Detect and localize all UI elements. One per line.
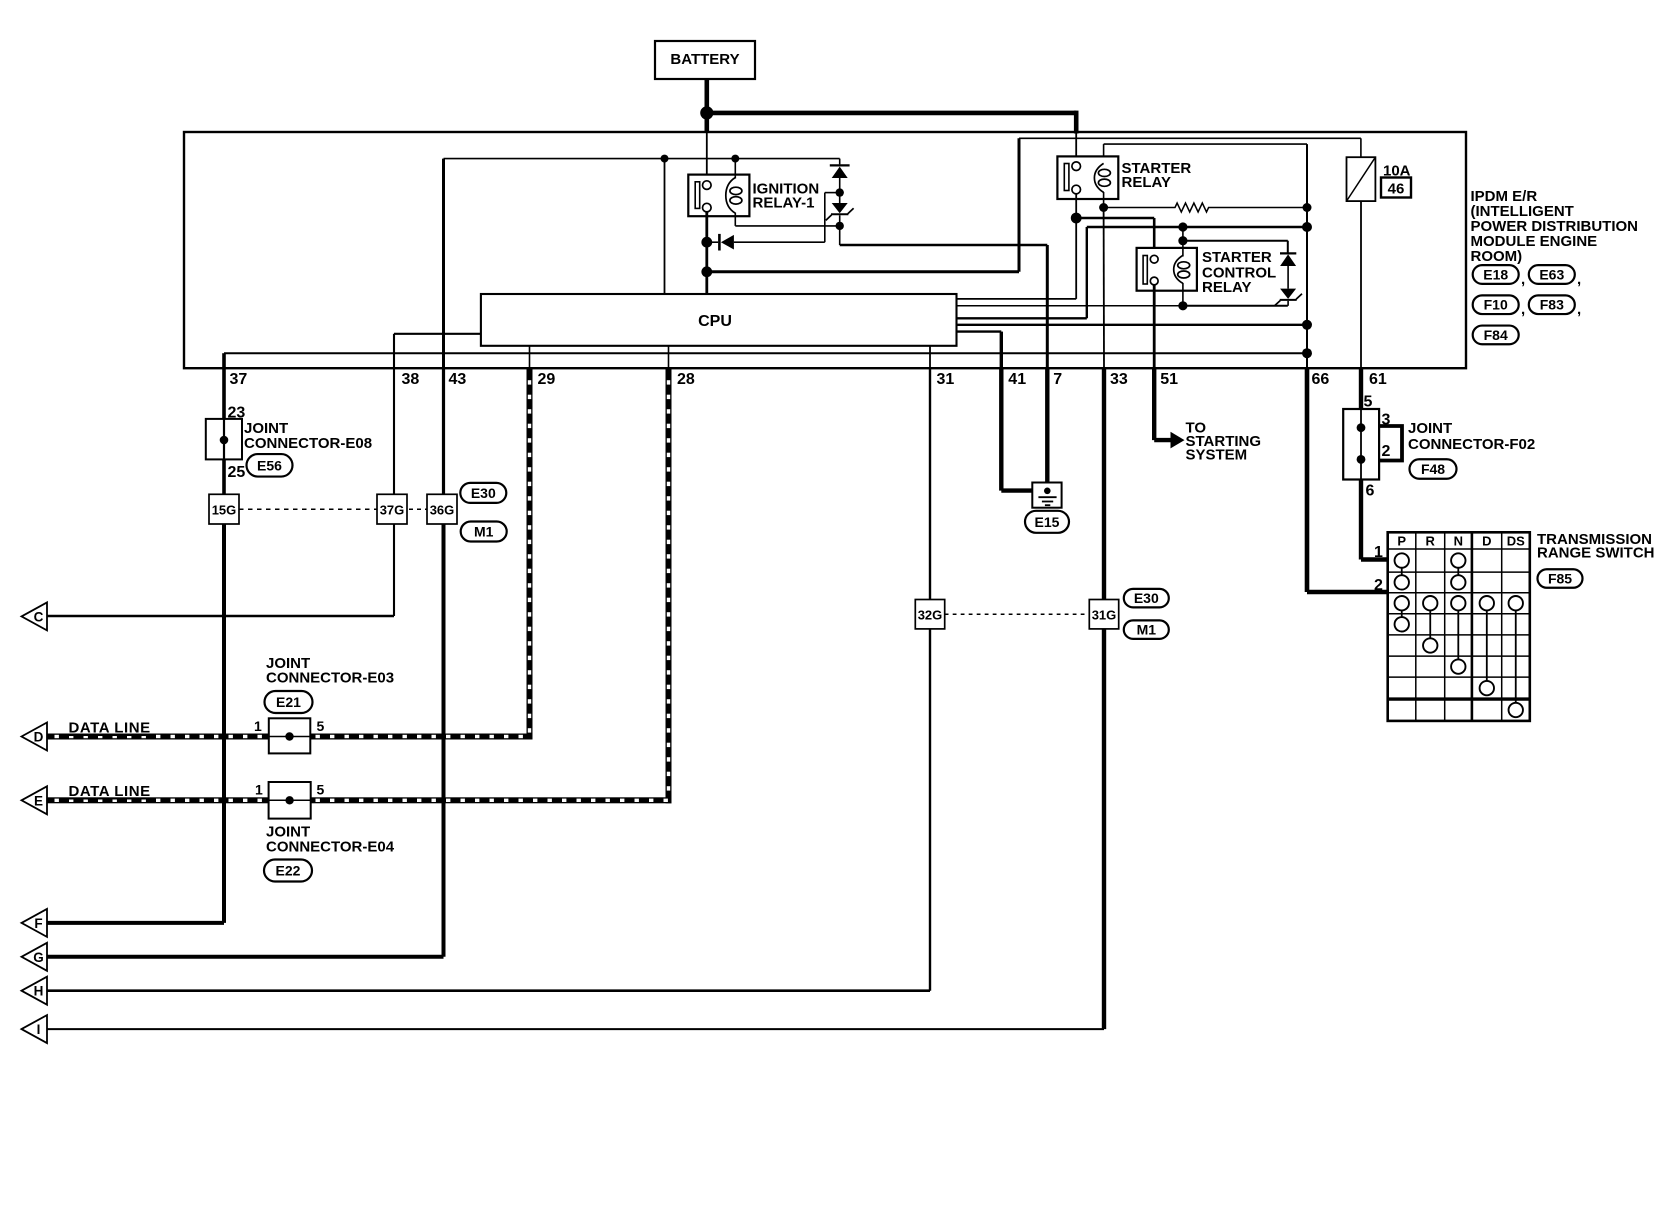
svg-text:15G: 15G [212,503,237,518]
wire long bus pin37 to pin66 net [224,352,1307,354]
svg-text:I: I [37,1022,41,1037]
dashed mate line 15G-37G [239,508,379,510]
wire D2 to ignition output [707,241,718,243]
connector oval E56 [247,454,293,477]
wire battery to junction [704,79,709,133]
wire Z1 to bottom node [839,215,841,226]
connector ovals F10 F83 [1473,295,1519,314]
resistor R1 [1104,203,1307,212]
relay box IGNITION RELAY-1 [688,175,749,217]
IPDM E/R enclosure box [184,132,1466,368]
wire ignition coil top stub [734,159,736,179]
ground symbol box E15 [1032,483,1061,508]
svg-text:38: 38 [402,371,420,388]
node resistor tap [1099,203,1108,212]
wire E08 to 15G [222,459,226,494]
wire F horizontal [45,921,224,925]
svg-text:F85: F85 [1548,571,1572,587]
wire pin37 stub [222,353,226,368]
wire pin43 feed line [444,158,840,160]
dashed mate line 37G-36G [409,508,429,510]
wire G horizontal [45,955,444,959]
wire fuse feed top [1019,137,1361,139]
wire pin31 riser [929,368,931,991]
wire SCR coil bottom [1182,283,1184,306]
svg-text:CONNECTOR-E08: CONNECTOR-E08 [244,435,372,452]
node battery junction [700,106,713,119]
wire CPU to pin31 stub [929,346,931,368]
starter relay coil loops [1098,169,1110,176]
svg-text:RANGE SWITCH: RANGE SWITCH [1537,545,1655,562]
node pin66 net coil feed junction [1302,222,1312,232]
wire CPU to pin66 net [957,324,1308,326]
wire Z2 to bottom edge [1287,301,1289,306]
svg-text:29: 29 [538,371,556,388]
zener Z2 bar with tails [1280,299,1297,301]
wire SCR contact to pin51 [1153,285,1156,368]
SCR contact terminal bottom [1150,277,1158,285]
node ignition output diode junction [701,237,712,248]
node pin66 net cpu junction [1302,320,1312,330]
svg-text:2: 2 [1374,577,1383,594]
wire SCR subcircuit bottom edge [1183,305,1288,307]
svg-text:ROOM): ROOM) [1471,248,1523,265]
svg-text:1: 1 [255,782,263,798]
svg-text:31G: 31G [1092,608,1117,623]
node ignition output fuse-branch junction [701,266,712,277]
wire CPU to pin29 stub [529,346,531,368]
connector oval F85 [1538,569,1583,588]
svg-text:DATA LINE: DATA LINE [69,720,151,737]
node ground entry [1044,488,1051,495]
wire pin38 riser to C corner [393,368,395,616]
wire SCR coil bottom to CPU [957,305,1183,307]
diode D1 body [832,167,848,178]
wire D1 to mid node [839,178,841,203]
svg-text:,: , [1521,301,1525,318]
svg-text:E22: E22 [276,863,301,879]
SCR contact bar [1143,256,1147,285]
svg-text:F84: F84 [1484,327,1508,343]
wire battery bus to starter relay branch [707,111,1076,116]
svg-text:RELAY: RELAY [1202,279,1251,296]
node ignition coil top junction [731,155,739,163]
wire pin43 riser inside IPDM [442,159,445,369]
svg-text:E30: E30 [1134,590,1159,606]
zener diode Z1 body [832,203,848,213]
node junction to CPU [661,155,669,163]
wire D3 to Z2 [1287,266,1289,289]
diode D2 cathode bar [718,234,721,251]
svg-text:M1: M1 [474,524,494,540]
fuse F46 10A symbol [1347,157,1376,201]
TRS contact connection lines [1401,561,1403,583]
ignition relay coil arc [726,178,736,214]
svg-text:E30: E30 [471,485,496,501]
wire pin43 riser below IPDM [442,368,445,524]
CPU box U1 [481,294,957,346]
wire fuse to pin61 [1360,201,1362,368]
node SCR coil feed junction [1178,222,1187,231]
connector oval E30 left [460,483,506,503]
wire pin37 riser to joint connector E08 [222,368,226,419]
svg-text:G: G [33,950,44,965]
svg-text:D: D [1482,534,1491,549]
wire ignition relay output to CPU [705,212,708,294]
node diode stack bottom [836,222,844,230]
starter relay contact terminal bottom [1072,185,1081,194]
connector oval F48 [1410,459,1457,479]
svg-text:DATA LINE: DATA LINE [69,783,151,800]
wire SCR subcircuit right edge upper [1287,241,1289,254]
svg-text:E: E [34,793,43,808]
starter relay contact terminal top [1072,162,1081,171]
harness triangles C D E F G H I [22,602,48,630]
dashed mate line 32G-31G [945,613,1090,615]
wire fuse top stub [1360,138,1362,157]
SCR coil arc [1174,255,1183,283]
wire pin33 riser inside IPDM [1103,208,1105,369]
wire diode mid branch [825,192,840,194]
SCR contact terminal top [1150,255,1158,263]
connector oval M1 left [461,522,507,542]
wire E data line checkered [46,797,672,803]
node F02 joint lower pin2 [1357,455,1366,464]
svg-text:,: , [1521,271,1525,288]
svg-text:5: 5 [317,782,325,798]
svg-text:33: 33 [1110,371,1128,388]
svg-text:1: 1 [254,718,262,734]
connector ovals E18 E63 [1473,265,1519,284]
svg-text:2: 2 [1382,443,1391,460]
wire CPU to pin41 [957,330,1002,332]
wire pin51 to starting system arrow [1152,368,1156,440]
wire diode stack top stub [839,159,841,165]
node E08 joint [220,436,229,445]
node starter output junction [1071,213,1082,224]
wire inside E08 [223,419,225,460]
wire SCR coil top inside [1182,241,1184,257]
wire starter output to starter control relay [1076,217,1154,220]
connector oval E22 [264,860,312,882]
in-line connector box 32G [915,600,944,629]
wire diode stack to pin7 run [839,226,841,245]
diode D2 body pointing left [721,235,734,250]
wire pin61 riser to F02 [1359,368,1363,409]
wire H horizontal [45,989,930,992]
joint connector E04 box [269,782,311,819]
in-line connector box 15G [209,494,239,524]
svg-text:CONNECTOR-F02: CONNECTOR-F02 [1408,436,1535,453]
joint connector E03 box [269,718,311,753]
ignition relay coil loops [730,187,742,194]
ignition relay contact bar [695,182,700,209]
svg-text:F10: F10 [1484,297,1508,313]
svg-text:46: 46 [1388,181,1405,198]
TRS contact circles [1395,553,1409,567]
svg-text:31: 31 [937,371,955,388]
svg-text:1: 1 [1374,544,1383,561]
svg-text:36G: 36G [430,503,455,518]
svg-text:CONNECTOR-E04: CONNECTOR-E04 [266,839,395,856]
wire D data line checkered [46,734,533,740]
svg-text:F83: F83 [1540,297,1564,313]
connector oval F84 [1473,326,1519,345]
wire pin33 riser upper [1102,368,1106,599]
svg-text:5: 5 [317,718,325,734]
wire pin66 riser to TRS row2 [1305,368,1310,592]
svg-text:F: F [34,916,42,931]
wire pin29 checkered riser [527,368,533,739]
wire inside F02 [1360,409,1362,480]
wire CPU to pin28 stub [668,346,670,368]
SCR coil loops [1178,262,1190,269]
joint connector E08 box [206,419,242,460]
svg-text:BATTERY: BATTERY [670,51,739,68]
svg-text:6: 6 [1366,483,1375,500]
svg-text:61: 61 [1369,371,1387,388]
svg-text:E56: E56 [257,457,282,473]
wire ignition coil bottom [734,213,736,226]
wire starter relay contact feed [1075,134,1077,163]
in-line connector box 36G [427,494,457,524]
node resistor right end on pin66 net [1303,203,1312,212]
svg-text:37G: 37G [380,503,405,518]
svg-text:CPU: CPU [698,313,732,330]
in-line connector box 37G [377,494,407,524]
wire junction to CPU top [664,159,666,294]
node SCR subcircuit top-left [1178,236,1187,245]
svg-text:51: 51 [1160,371,1178,388]
svg-text:25: 25 [228,464,246,481]
wire ignition output to fuse riser [707,270,1019,273]
wire pin7 horizontal run [840,244,1048,247]
wire starter relay contact output [1075,194,1077,218]
svg-text:E18: E18 [1483,267,1508,283]
svg-text:H: H [34,984,44,999]
connector oval M1 right [1124,620,1169,639]
connector oval E21 [265,691,313,713]
node F02 joint upper pin3 [1357,423,1366,432]
svg-text:RELAY-1: RELAY-1 [753,195,815,212]
svg-text:41: 41 [1008,371,1026,388]
wire starter relay coil bottom to pin33 [1103,192,1105,208]
wire F02 to TRS row1 [1359,480,1363,560]
svg-text:P: P [1397,534,1406,549]
F02 bracket pins 3-2 [1379,426,1402,461]
transmission range switch grid [1388,532,1530,721]
wire CPU to pin38 [394,333,481,335]
node E03 joint [285,732,293,740]
wire 36G down to G corner [442,524,446,957]
wire 15G down to F corner [222,524,226,923]
svg-text:28: 28 [677,371,695,388]
connector oval E30 right [1124,589,1169,608]
svg-text:66: 66 [1312,371,1330,388]
starter relay contact bar [1064,164,1069,191]
wire pin33 riser lower to I corner [1102,629,1106,1029]
wire starter relay coil feed top [1104,143,1307,145]
svg-text:C: C [34,609,44,624]
wire pin7 riser inside IPDM [1046,245,1049,368]
wire CPU to SCR coil drive [957,317,1087,319]
svg-text:7: 7 [1053,371,1062,388]
svg-text:,: , [1577,301,1581,318]
svg-text:N: N [1454,534,1463,549]
diode D3 body [1280,254,1296,266]
svg-text:JOINT: JOINT [1408,420,1452,437]
node SCR subcircuit bottom-left [1178,301,1187,310]
node E04 joint [285,796,293,804]
wire pin41 riser to ground [999,368,1003,490]
wire C horizontal [46,615,395,617]
joint connector F02 box [1343,409,1379,480]
arrow head to starting system [1171,432,1185,449]
battery box BATTERY [655,41,755,79]
in-line connector box 31G [1089,600,1118,629]
svg-text:DS: DS [1507,534,1525,549]
svg-text:F48: F48 [1421,461,1445,477]
diode D3 cathode bar [1280,252,1296,254]
svg-text:M1: M1 [1137,622,1157,638]
wire ignition relay contact feed [706,132,708,181]
diode D1 cathode bar [830,164,850,166]
wire inside E04 [269,799,311,801]
ground connector oval E15 [1025,511,1069,533]
zener Z1 bar with tails [831,213,848,215]
ground bars [1038,496,1056,498]
wire pin66 net vertical [1306,144,1308,368]
zener diode Z2 body [1280,289,1296,299]
wire SCR subcircuit top edge [1183,240,1288,242]
svg-text:R: R [1426,534,1436,549]
svg-text:43: 43 [449,371,467,388]
svg-text:D: D [34,730,44,745]
svg-text:,: , [1577,271,1581,288]
relay box STARTER RELAY [1057,156,1118,199]
wire pin7 riser to ground [1045,368,1049,491]
fuse number box 46 [1381,178,1411,198]
svg-text:STARTER: STARTER [1202,249,1272,266]
wire SCR coil top stub [1182,227,1184,241]
starter relay coil arc [1094,163,1103,192]
svg-text:CONNECTOR-E03: CONNECTOR-E03 [266,670,394,687]
svg-text:RELAY: RELAY [1122,174,1171,191]
ignition relay contact terminal bottom [703,203,712,212]
svg-text:E21: E21 [276,694,301,710]
node diode stack mid [836,188,844,196]
svg-text:3: 3 [1382,412,1391,429]
svg-text:SYSTEM: SYSTEM [1186,447,1248,464]
relay box STARTER CONTROL RELAY [1137,248,1197,291]
svg-text:E15: E15 [1035,514,1060,530]
wire starter output sense to CPU [1075,218,1077,299]
svg-text:32G: 32G [918,608,943,623]
ignition relay contact terminal top [703,181,712,190]
wire I horizontal [45,1028,1104,1030]
wire inside E03 [269,736,311,738]
svg-text:E63: E63 [1539,267,1564,283]
svg-text:37: 37 [230,371,248,388]
node pin66 net long bus junction [1302,348,1312,358]
wire pin28 checkered riser [666,368,672,803]
